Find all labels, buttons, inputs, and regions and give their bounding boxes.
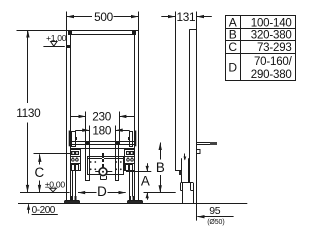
- side drain pipe: [181, 158, 183, 183]
- dim 500 arrow left: [67, 15, 75, 18]
- drain axis stub left: [95, 171, 98, 173]
- dim 230 extension line left: [85, 112, 87, 143]
- anchor block right lower slots: [126, 165, 129, 171]
- svg-text:D: D: [228, 60, 237, 74]
- level mark +1,00 underline: [43, 46, 64, 48]
- dim D arrow right: [119, 191, 126, 194]
- foot left: [71, 196, 73, 201]
- right leg reinforcement: [135, 131, 137, 147]
- frame top bar inner line: [70, 34, 134, 36]
- mounting plate top inner line: [88, 158, 124, 160]
- side front step: [176, 170, 182, 172]
- crossbar lower line: [71, 148, 135, 150]
- svg-text:320-380: 320-380: [251, 30, 292, 42]
- water pipe end fitting: [210, 142, 217, 145]
- svg-text:C: C: [228, 40, 237, 54]
- dim C top extension line: [34, 153, 71, 155]
- anchor block right nut band: [126, 151, 134, 155]
- anchor block right holes: [127, 159, 130, 162]
- anchor block left lower slots: [72, 165, 75, 171]
- anchor block left lower line: [71, 163, 80, 165]
- stud right: [115, 145, 117, 181]
- left leg reinforcement: [69, 131, 71, 147]
- foot right: [129, 196, 131, 201]
- dim 180 extension line right: [115, 126, 117, 143]
- water pipe: [197, 142, 211, 144]
- svg-text:(Ø50): (Ø50): [207, 219, 224, 226]
- svg-text:0-200: 0-200: [32, 205, 56, 216]
- drain bracket center: [102, 153, 104, 168]
- frame right leg inner line: [134, 35, 136, 201]
- level line ±0,00 right: [144, 192, 176, 194]
- svg-text:70-160/: 70-160/: [254, 56, 293, 68]
- crossbar bottom line: [70, 144, 134, 146]
- frame right leg outer line: [138, 30, 140, 201]
- table column line: [240, 16, 242, 81]
- frame left leg inner line: [70, 35, 72, 201]
- dim 230 arrow right: [119, 116, 134, 118]
- crossbar nut right: [115, 142, 120, 145]
- dim 500 arrow right: [131, 15, 138, 18]
- side view inner rail line: [189, 29, 191, 183]
- svg-text:B: B: [156, 160, 165, 175]
- dim D line: [78, 192, 97, 194]
- dim 180 arrow left: [75, 130, 89, 132]
- dim 95 arrow: [197, 215, 204, 218]
- svg-text:1130: 1130: [16, 106, 41, 120]
- side step block: [179, 171, 182, 175]
- drain circle: [99, 168, 107, 176]
- anchor block left holes: [72, 159, 75, 162]
- svg-text:A: A: [141, 174, 150, 189]
- upper bracket right bolt: [128, 137, 130, 140]
- level mark ±0,00 triangle: [50, 188, 57, 192]
- table row lines: [225, 28, 296, 30]
- level mark +1,00 triangle: [51, 42, 57, 47]
- frame top bar outer line: [66, 30, 138, 32]
- dim 131 arrow right: [197, 16, 212, 18]
- svg-text:C: C: [34, 165, 44, 180]
- dim 230 arrow left: [70, 116, 85, 118]
- svg-text:D: D: [97, 184, 107, 199]
- svg-text:+1,00: +1,00: [46, 33, 67, 43]
- dim A arrow top: [147, 163, 149, 171]
- dim 500 extension line left: [66, 12, 68, 31]
- svg-text:131: 131: [177, 10, 196, 24]
- anchor block right: [125, 150, 135, 171]
- dim 0-200 underline: [32, 214, 58, 216]
- anchor block left: [71, 150, 81, 171]
- dim 180 extension line left: [89, 126, 91, 143]
- table box: [226, 16, 296, 81]
- svg-text:290-380: 290-380: [251, 69, 292, 81]
- dim 131 extension line right: [196, 12, 198, 31]
- dim 1130 line: [27, 30, 29, 103]
- svg-text:230: 230: [92, 110, 112, 124]
- svg-text:180: 180: [92, 123, 112, 137]
- dim B line: [160, 143, 162, 160]
- wall bracket side: [197, 150, 201, 154]
- frame top corner bolt right: [132, 31, 136, 35]
- svg-text:100-140: 100-140: [251, 17, 292, 29]
- dim 180 arrow right: [116, 130, 130, 132]
- dim C line: [39, 154, 41, 164]
- foot tube right: [129, 171, 131, 197]
- crossbar nut left: [85, 142, 90, 145]
- dim 1130 arrow bottom: [26, 185, 29, 193]
- dim 95 line: [197, 216, 233, 218]
- dim D arrow left: [78, 191, 85, 194]
- dim 230 extension line right: [119, 112, 121, 143]
- dim B arrow top: [159, 143, 162, 151]
- level line ±0,00 left: [20, 192, 70, 194]
- foot tube left: [72, 171, 74, 197]
- svg-text:73-293: 73-293: [257, 42, 292, 54]
- level mark +1,00 square on left leg: [66, 45, 70, 48]
- drain elbow: [100, 176, 102, 180]
- dim 95 extension line: [196, 204, 198, 221]
- dim 1130 arrow top: [26, 30, 29, 38]
- dim C arrow top: [38, 154, 41, 162]
- svg-text:500: 500: [94, 10, 114, 24]
- dim A arrow bottom: [147, 193, 149, 200]
- upper bracket left bolt: [75, 137, 77, 140]
- dim B arrow bottom: [159, 185, 162, 193]
- mounting plate screw dots: [90, 161, 122, 170]
- side view top cap: [189, 29, 196, 31]
- upper bracket left: [72, 132, 76, 147]
- anchor block right lower line: [125, 163, 134, 165]
- drain axis stub right: [107, 171, 112, 173]
- svg-text:95: 95: [209, 205, 221, 217]
- side view front line: [175, 12, 177, 172]
- svg-text:±0,00: ±0,00: [45, 179, 65, 189]
- frame top corner bolt left: [68, 31, 72, 35]
- mounting plate: [88, 157, 124, 175]
- anchor block left mid line: [71, 156, 80, 158]
- side drain pipe arrow: [184, 154, 186, 160]
- dim 0-200 arrow: [28, 204, 30, 213]
- dim 1130 top extension line: [17, 30, 67, 32]
- anchor block right mid line: [125, 156, 134, 158]
- stud left: [85, 145, 87, 181]
- dim 131 extension line left: [175, 12, 177, 31]
- anchor block left nut band: [71, 151, 79, 155]
- crossbar top line: [70, 141, 134, 143]
- floor line: [18, 203, 247, 205]
- dim 500 extension line right: [138, 12, 140, 31]
- side coupling sleeve: [180, 183, 182, 191]
- side view back line: [196, 12, 198, 204]
- dim A axis line: [126, 171, 151, 173]
- dim C arrow bottom: [38, 185, 41, 193]
- dim 131 arrow left: [161, 16, 175, 18]
- frame left leg outer line: [66, 30, 68, 201]
- dim 500 line: [67, 16, 92, 18]
- upper bracket right: [130, 132, 133, 147]
